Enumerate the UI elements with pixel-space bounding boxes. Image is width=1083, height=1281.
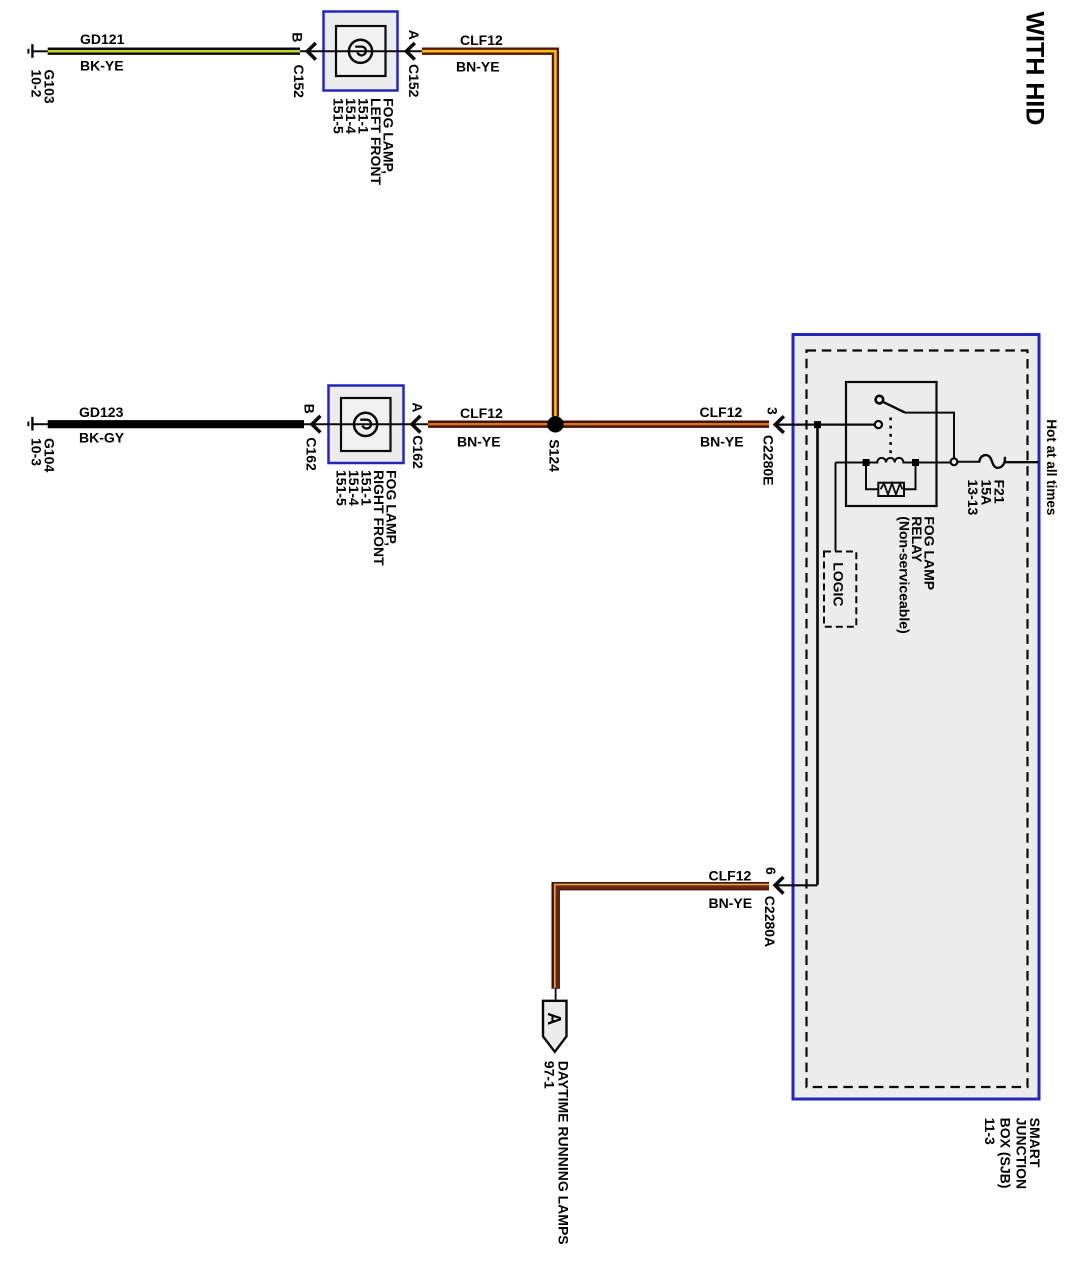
wire fuse to hot bus xyxy=(1005,461,1039,463)
svg-text:A: A xyxy=(406,30,422,40)
splice S124 xyxy=(547,416,563,432)
svg-text:6: 6 xyxy=(763,867,779,875)
svg-text:C162: C162 xyxy=(410,435,426,469)
wire GD123 BK-GY ground wire xyxy=(48,420,304,428)
wire stub to connector A xyxy=(555,988,557,1001)
wire from switch to fuse node xyxy=(905,413,954,458)
lamp bulb symbol left front xyxy=(349,40,372,63)
svg-text:BN-YE: BN-YE xyxy=(456,58,500,74)
connector C162 pin A arrow xyxy=(412,416,421,433)
svg-text:CLF12: CLF12 xyxy=(460,32,503,48)
coil junction dot left xyxy=(863,459,870,466)
connector C152 pin A arrow xyxy=(406,43,415,60)
off-page connector A daytime running lamps xyxy=(543,1001,567,1052)
svg-text:B: B xyxy=(290,32,306,42)
svg-text:CLF12: CLF12 xyxy=(460,405,503,421)
svg-text:GD123: GD123 xyxy=(79,404,124,420)
svg-text:BN-YE: BN-YE xyxy=(709,895,753,911)
svg-text:C152: C152 xyxy=(291,65,307,99)
fog lamp left front box xyxy=(324,12,398,91)
svg-text:BN-YE: BN-YE xyxy=(457,434,501,450)
ground G103 xyxy=(28,44,47,58)
svg-text:C2280E: C2280E xyxy=(761,435,777,486)
svg-text:Hot at all times: Hot at all times xyxy=(1044,419,1059,515)
svg-text:WITH HID: WITH HID xyxy=(1021,12,1049,126)
wire node to fuse xyxy=(958,461,980,463)
connector C2280E pin 3 arrow xyxy=(775,416,784,433)
svg-text:A: A xyxy=(544,1012,564,1025)
resistor parallel loop wires xyxy=(866,466,916,489)
resistor zigzag xyxy=(881,484,903,495)
svg-text:BN-YE: BN-YE xyxy=(700,433,744,449)
connector C2280A pin 6 arrow xyxy=(775,877,784,894)
lamp bulb symbol right front xyxy=(354,413,377,436)
svg-text:C162: C162 xyxy=(304,437,320,471)
wire junction down to C2280A xyxy=(816,428,819,885)
ground G104 xyxy=(28,417,47,431)
wire CLF12 BN-YE to daytime running lamps xyxy=(556,886,769,989)
fog lamp relay box U1 xyxy=(846,382,937,506)
wire through fog lamp xyxy=(322,50,422,52)
svg-text:S124: S124 xyxy=(547,439,563,472)
relay switch pivot contact xyxy=(876,396,884,404)
svg-text:3: 3 xyxy=(765,407,781,415)
svg-text:B: B xyxy=(302,404,318,414)
svg-text:BK-YE: BK-YE xyxy=(80,58,124,74)
svg-text:A: A xyxy=(410,402,426,412)
relay pin node circle xyxy=(951,458,958,465)
wire coil to LOGIC xyxy=(835,463,837,552)
fuse F21 symbol xyxy=(979,455,1005,468)
wire stub into C162 B xyxy=(304,423,328,425)
relay coil L1 xyxy=(836,458,951,463)
wire CLF12 BN-YE from C162 A to SJB C2280E xyxy=(428,421,769,428)
wire GD121 BK-YE ground wire xyxy=(48,48,300,55)
svg-text:GD121: GD121 xyxy=(80,31,125,47)
wire through fog lamp right xyxy=(327,423,428,425)
svg-text:LOGIC: LOGIC xyxy=(831,562,847,606)
svg-text:BK-GY: BK-GY xyxy=(79,429,125,445)
fog lamp right front box xyxy=(329,386,404,464)
LOGIC box xyxy=(824,552,856,627)
svg-text:C152: C152 xyxy=(406,64,422,98)
resistor R1 box xyxy=(878,483,904,496)
relay actuator dotted link xyxy=(889,418,892,456)
junction dot in SJB xyxy=(814,421,821,428)
svg-text:C2280A: C2280A xyxy=(762,896,778,947)
relay switch blade xyxy=(882,402,905,413)
connector C162 pin B arrow xyxy=(312,416,321,433)
svg-text:CLF12: CLF12 xyxy=(700,404,743,420)
relay switch lower contact xyxy=(875,421,882,428)
svg-text:CLF12: CLF12 xyxy=(709,867,752,883)
wire into SJB from C2280E xyxy=(774,424,875,426)
coil junction dot right xyxy=(912,459,919,466)
connector C152 pin B arrow xyxy=(307,43,316,60)
wire stub into C152 B xyxy=(300,50,323,52)
wire CLF12 BN-YE from C152 A down to splice S124 xyxy=(422,51,555,416)
SJB dashed inner border xyxy=(807,351,1028,1088)
smart junction box SJB outer box xyxy=(793,335,1039,1100)
